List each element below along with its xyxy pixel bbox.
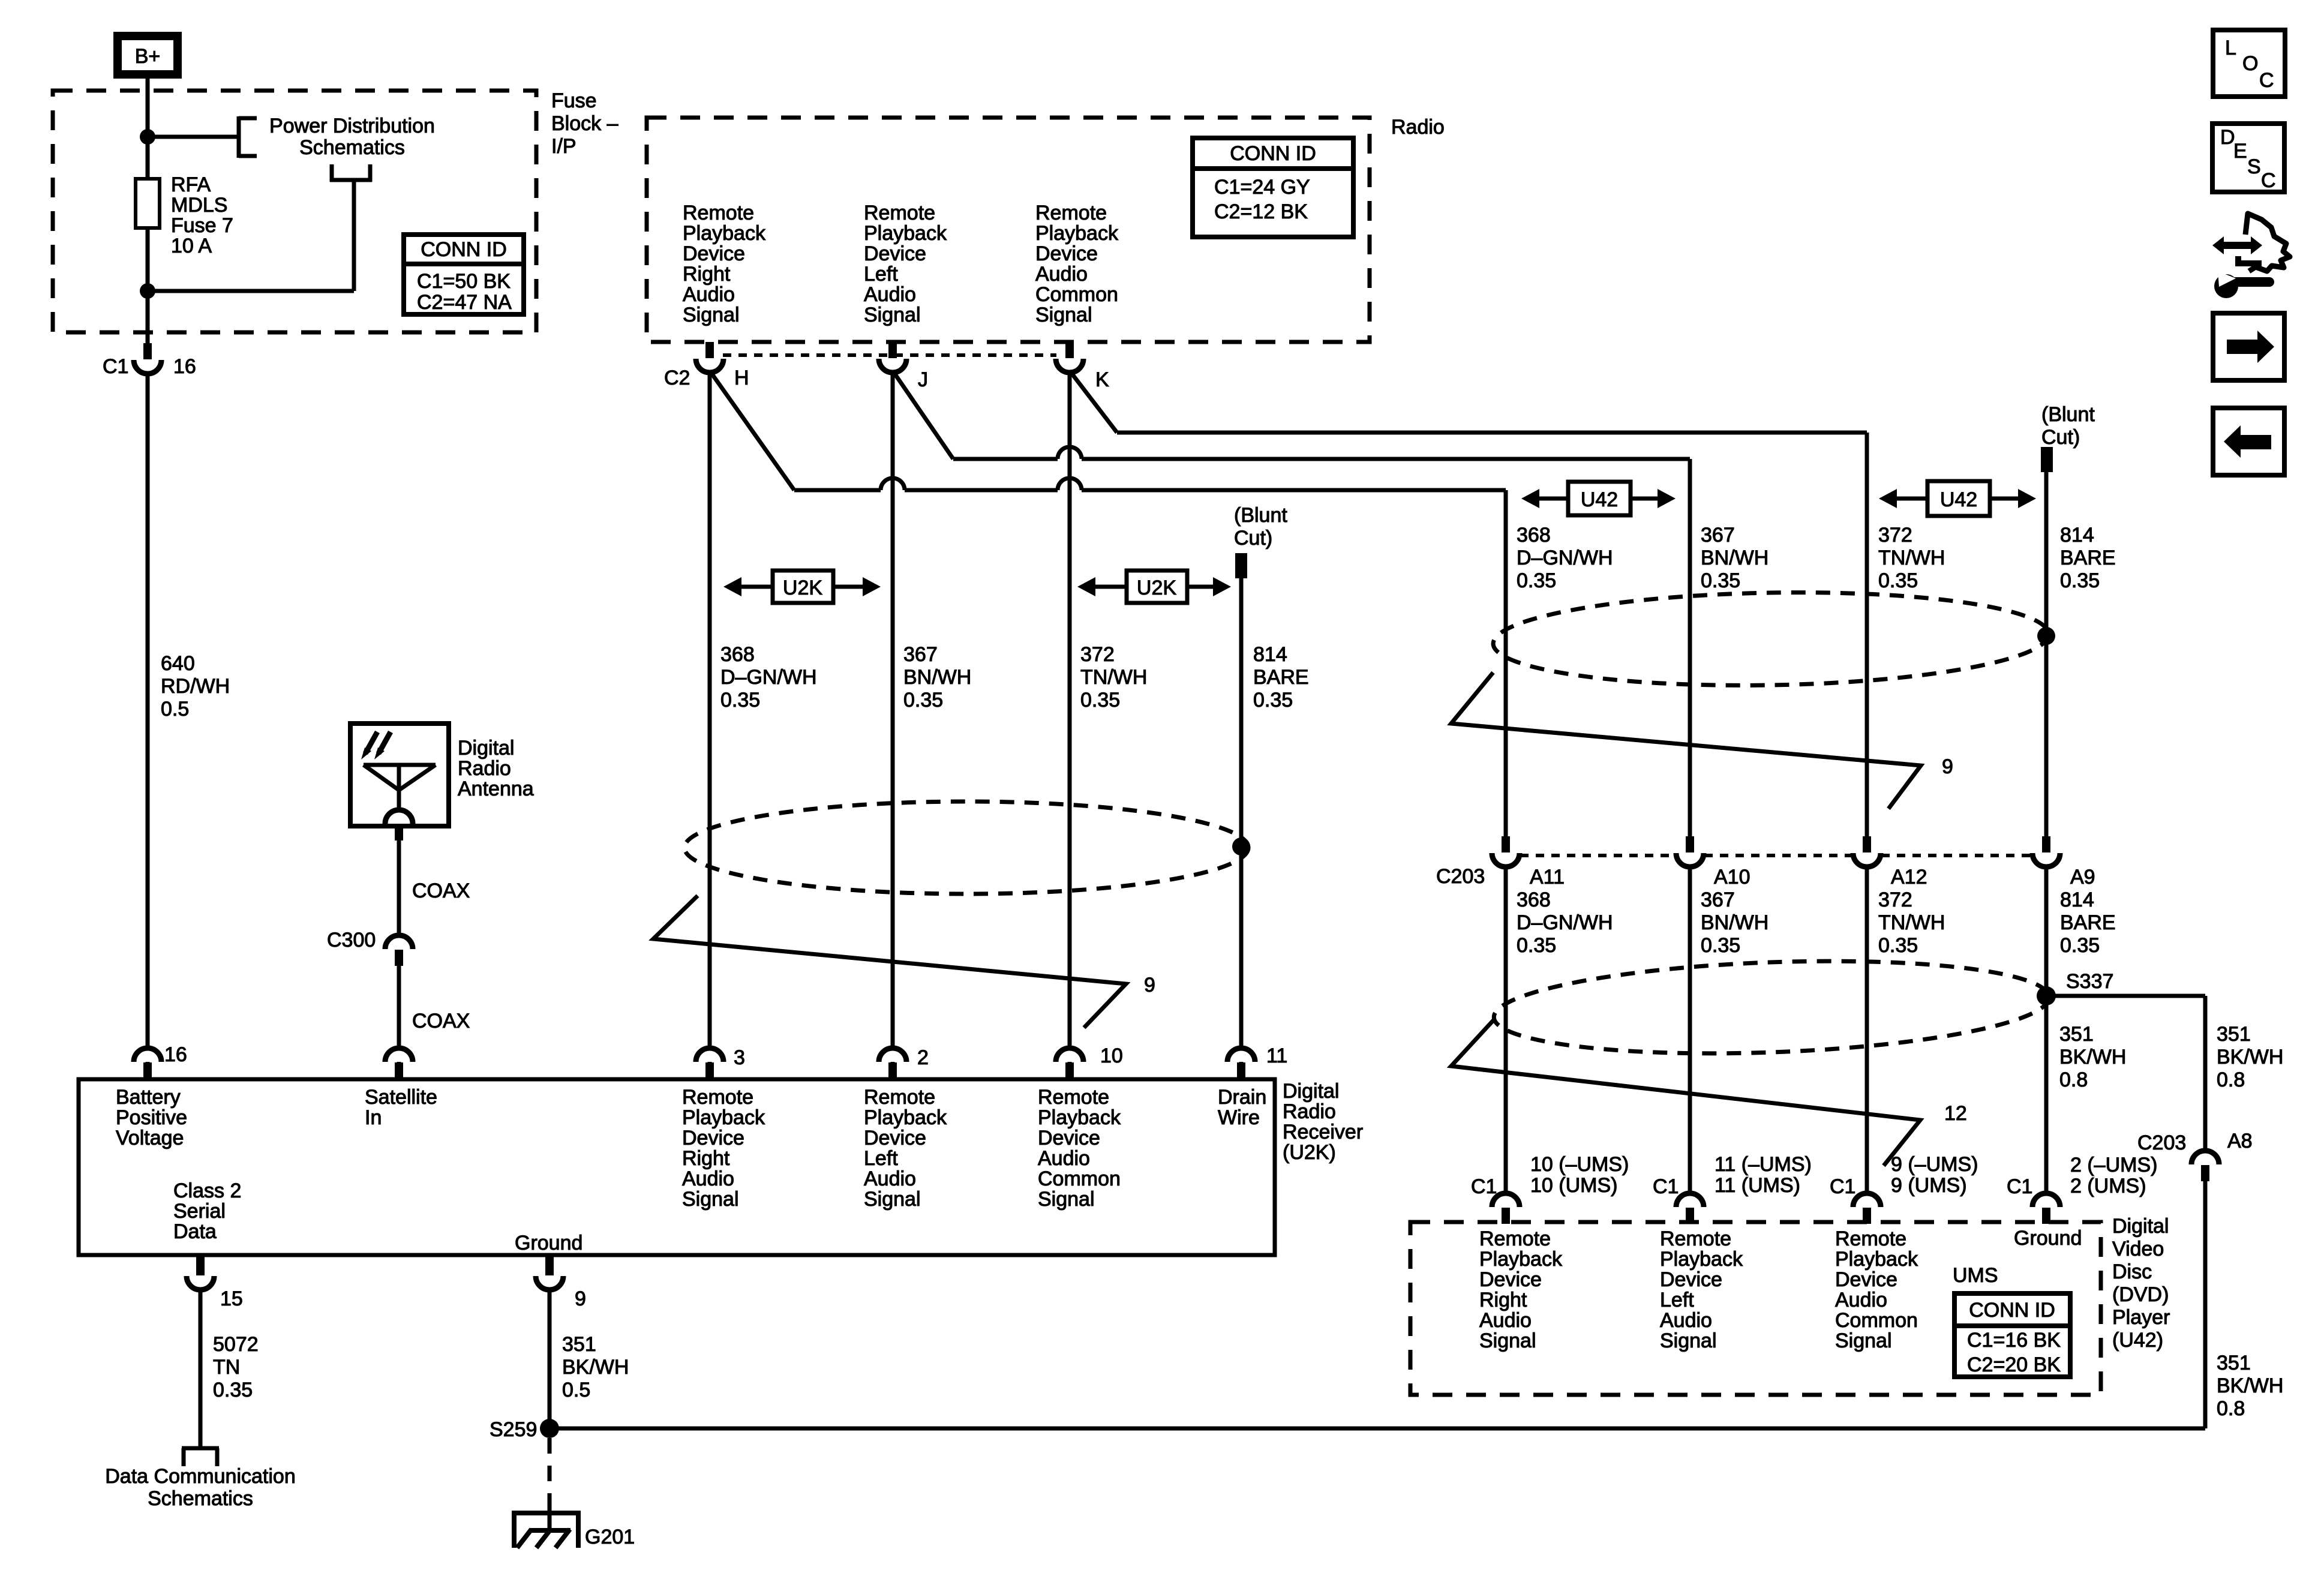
svg-text:10: 10 [1100,1044,1123,1067]
svg-text:U2K: U2K [1137,577,1176,599]
svg-text:C1: C1 [103,355,128,378]
svg-text:0.35: 0.35 [1080,689,1120,712]
svg-text:10 A: 10 A [171,235,212,257]
svg-text:MDLS: MDLS [171,194,227,217]
svg-text:(U42): (U42) [2112,1329,2163,1352]
svg-text:C203: C203 [1436,865,1485,888]
svg-text:Playback: Playback [864,1106,947,1129]
svg-text:Block –: Block – [551,112,618,135]
svg-text:Battery: Battery [116,1086,181,1109]
svg-text:10 (–UMS): 10 (–UMS) [1530,1153,1629,1176]
svg-text:Playback: Playback [683,222,766,245]
svg-text:16: 16 [173,355,196,378]
svg-text:Audio: Audio [683,283,735,306]
svg-text:BARE: BARE [1253,666,1309,689]
svg-text:372: 372 [1878,888,1912,911]
svg-text:Class 2: Class 2 [173,1179,241,1202]
svg-text:15: 15 [220,1287,243,1310]
svg-text:Disc: Disc [2112,1260,2152,1283]
svg-text:10 (UMS): 10 (UMS) [1530,1174,1617,1197]
svg-text:COAX: COAX [412,1010,470,1032]
svg-text:Left: Left [864,263,898,286]
svg-text:Audio: Audio [682,1167,734,1190]
svg-text:TN/WH: TN/WH [1878,547,1945,569]
svg-text:Device: Device [864,242,926,265]
svg-text:BN/WH: BN/WH [903,666,971,689]
svg-text:0.8: 0.8 [2217,1068,2245,1091]
svg-text:C1=16 BK: C1=16 BK [1967,1329,2061,1352]
svg-text:COAX: COAX [412,879,470,902]
svg-text:Audio: Audio [1835,1289,1887,1311]
svg-text:Satellite: Satellite [365,1086,437,1109]
svg-text:BK/WH: BK/WH [2059,1046,2126,1068]
svg-text:Cut): Cut) [1234,527,1272,550]
svg-text:Digital: Digital [458,737,514,760]
svg-text:Cut): Cut) [2041,426,2080,449]
svg-text:Fuse: Fuse [551,89,597,112]
svg-text:Positive: Positive [116,1106,187,1129]
svg-text:Device: Device [682,1127,744,1149]
svg-text:D–GN/WH: D–GN/WH [1517,911,1613,934]
svg-text:Audio: Audio [1479,1309,1532,1332]
svg-text:E: E [2233,140,2247,163]
svg-text:O: O [2242,52,2258,75]
svg-text:12: 12 [1944,1102,1967,1125]
svg-text:C300: C300 [327,929,376,951]
svg-text:CONN ID: CONN ID [1230,142,1316,165]
svg-text:Voltage: Voltage [116,1127,184,1149]
svg-text:Device: Device [1479,1268,1542,1291]
svg-text:Device: Device [864,1127,926,1149]
svg-text:(U2K): (U2K) [1283,1141,1336,1164]
svg-text:0.35: 0.35 [1878,934,1918,957]
svg-text:Signal: Signal [1479,1329,1536,1352]
svg-text:Ground: Ground [2014,1227,2082,1250]
svg-text:Remote: Remote [1479,1227,1551,1250]
svg-text:Power Distribution: Power Distribution [269,115,435,137]
svg-text:CONN ID: CONN ID [1969,1299,2055,1322]
svg-text:0.35: 0.35 [213,1379,253,1401]
svg-text:Device: Device [1835,1268,1897,1291]
svg-text:H: H [734,367,749,389]
svg-text:TN: TN [213,1356,240,1379]
svg-text:9 (UMS): 9 (UMS) [1891,1174,1967,1197]
svg-text:D–GN/WH: D–GN/WH [1517,547,1613,569]
svg-text:Signal: Signal [1660,1329,1717,1352]
svg-text:Video: Video [2112,1238,2164,1260]
svg-text:9: 9 [575,1287,586,1310]
svg-text:0.35: 0.35 [1701,569,1740,592]
svg-text:0.5: 0.5 [161,698,189,721]
svg-text:S259: S259 [490,1418,537,1441]
svg-text:Signal: Signal [1038,1188,1095,1211]
svg-text:Radio: Radio [1391,116,1445,139]
svg-text:Device: Device [1035,242,1098,265]
svg-text:0.35: 0.35 [2060,934,2100,957]
svg-text:351: 351 [562,1333,596,1356]
svg-text:Serial: Serial [173,1200,226,1223]
svg-text:Playback: Playback [1479,1248,1563,1271]
svg-text:U42: U42 [1940,488,1977,511]
svg-text:Device: Device [1038,1127,1100,1149]
svg-text:814: 814 [1253,643,1287,666]
svg-text:0.35: 0.35 [1878,569,1918,592]
svg-text:5072: 5072 [213,1333,259,1356]
svg-text:Remote: Remote [1835,1227,1906,1250]
svg-text:I/P: I/P [551,135,577,158]
svg-text:C203: C203 [2137,1131,2186,1154]
svg-text:11 (–UMS): 11 (–UMS) [1715,1153,1812,1176]
svg-text:C: C [2259,69,2274,92]
svg-text:D–GN/WH: D–GN/WH [720,666,817,689]
svg-text:0.35: 0.35 [720,689,760,712]
svg-text:Data Communication: Data Communication [105,1465,295,1488]
svg-text:A10: A10 [1714,866,1750,888]
svg-text:U42: U42 [1581,488,1618,511]
svg-text:Fuse 7: Fuse 7 [171,214,233,237]
svg-text:11 (UMS): 11 (UMS) [1715,1174,1800,1197]
svg-text:TN/WH: TN/WH [1080,666,1147,689]
svg-text:Remote: Remote [683,202,754,224]
svg-text:BN/WH: BN/WH [1701,911,1768,934]
svg-text:A11: A11 [1530,866,1565,888]
svg-text:Common: Common [1835,1309,1918,1332]
svg-text:C1: C1 [1653,1175,1679,1198]
svg-text:C: C [2261,169,2276,192]
svg-text:Remote: Remote [1660,1227,1731,1250]
svg-text:Data: Data [173,1220,217,1243]
svg-text:3: 3 [734,1046,745,1069]
svg-text:C1: C1 [1471,1175,1497,1198]
svg-text:11: 11 [1266,1044,1287,1067]
svg-text:BARE: BARE [2060,911,2116,934]
svg-text:Playback: Playback [1038,1106,1121,1129]
svg-text:C2: C2 [664,367,690,389]
svg-text:Signal: Signal [864,304,921,326]
svg-text:351: 351 [2217,1023,2251,1046]
svg-text:368: 368 [1517,524,1551,547]
svg-text:Remote: Remote [864,202,935,224]
svg-text:A9: A9 [2070,866,2095,888]
svg-text:RFA: RFA [171,173,211,196]
svg-text:0.5: 0.5 [562,1379,590,1401]
svg-text:G201: G201 [585,1526,635,1548]
svg-text:K: K [1095,368,1109,391]
svg-text:0.35: 0.35 [1253,689,1293,712]
svg-text:351: 351 [2217,1352,2251,1374]
svg-text:Schematics: Schematics [148,1487,253,1510]
svg-text:0.35: 0.35 [1701,934,1740,957]
svg-text:Right: Right [683,263,731,286]
svg-text:C1=24 GY: C1=24 GY [1214,176,1310,199]
svg-text:368: 368 [720,643,755,666]
svg-text:351: 351 [2059,1023,2094,1046]
svg-text:BARE: BARE [2060,547,2116,569]
svg-text:J: J [918,368,928,391]
svg-text:0.8: 0.8 [2059,1068,2088,1091]
svg-text:0.35: 0.35 [2060,569,2100,592]
svg-text:Audio: Audio [1038,1147,1090,1170]
svg-text:D: D [2220,126,2235,149]
svg-text:C1=50 BK: C1=50 BK [417,270,511,293]
svg-text:(Blunt: (Blunt [1234,504,1287,527]
svg-text:Radio: Radio [1283,1100,1336,1123]
svg-text:Playback: Playback [864,222,947,245]
svg-text:Wire: Wire [1218,1106,1260,1129]
svg-text:367: 367 [1701,524,1735,547]
svg-text:372: 372 [1878,524,1912,547]
svg-text:Digital: Digital [2112,1215,2169,1238]
svg-text:Common: Common [1035,283,1118,306]
svg-text:Playback: Playback [682,1106,765,1129]
svg-text:Audio: Audio [864,283,916,306]
svg-text:BK/WH: BK/WH [562,1356,629,1379]
svg-text:Left: Left [1660,1289,1694,1311]
svg-text:C1: C1 [1830,1175,1855,1198]
svg-text:0.8: 0.8 [2217,1397,2245,1420]
svg-text:L: L [2225,37,2236,59]
svg-text:16: 16 [164,1043,187,1066]
svg-text:Antenna: Antenna [458,778,534,800]
svg-text:A8: A8 [2227,1130,2253,1152]
svg-text:S: S [2247,155,2261,178]
svg-text:Audio: Audio [1035,263,1088,286]
svg-text:Digital: Digital [1283,1080,1339,1103]
svg-text:Right: Right [1479,1289,1527,1311]
svg-text:Playback: Playback [1660,1248,1743,1271]
svg-text:U2K: U2K [783,577,822,599]
svg-text:(DVD): (DVD) [2112,1283,2169,1306]
svg-text:Signal: Signal [683,304,740,326]
svg-text:Left: Left [864,1147,898,1170]
svg-text:Player: Player [2112,1306,2170,1329]
svg-text:Schematics: Schematics [299,136,405,159]
svg-text:TN/WH: TN/WH [1878,911,1945,934]
svg-text:(Blunt: (Blunt [2041,403,2095,426]
svg-text:Remote: Remote [682,1086,753,1109]
svg-text:367: 367 [903,643,938,666]
svg-text:S337: S337 [2066,970,2113,993]
svg-text:Device: Device [683,242,745,265]
svg-text:Signal: Signal [682,1188,739,1211]
svg-text:In: In [365,1106,382,1129]
svg-text:367: 367 [1701,888,1735,911]
svg-text:368: 368 [1517,888,1551,911]
svg-text:2: 2 [917,1046,929,1069]
svg-text:640: 640 [161,652,195,675]
svg-text:Audio: Audio [864,1167,916,1190]
svg-text:0.35: 0.35 [903,689,943,712]
svg-text:9: 9 [1144,974,1155,996]
svg-text:814: 814 [2060,888,2094,911]
svg-text:C1: C1 [2007,1175,2032,1198]
svg-text:372: 372 [1080,643,1115,666]
svg-text:C2=47 NA: C2=47 NA [417,291,512,314]
svg-text:Right: Right [682,1147,730,1170]
svg-text:9 (–UMS): 9 (–UMS) [1891,1153,1978,1176]
svg-text:Audio: Audio [1660,1309,1712,1332]
svg-text:0.35: 0.35 [1517,934,1556,957]
svg-text:BN/WH: BN/WH [1701,547,1768,569]
svg-text:9: 9 [1942,755,1953,778]
svg-text:Remote: Remote [864,1086,935,1109]
svg-text:B+: B+ [135,45,161,68]
svg-text:Remote: Remote [1035,202,1107,224]
svg-text:Playback: Playback [1035,222,1119,245]
svg-text:Signal: Signal [1835,1329,1892,1352]
svg-text:Remote: Remote [1038,1086,1109,1109]
svg-text:A12: A12 [1891,866,1927,888]
svg-text:Radio: Radio [458,757,511,780]
svg-text:C2=20 BK: C2=20 BK [1967,1353,2061,1376]
svg-text:Ground: Ground [515,1232,582,1254]
svg-text:2 (–UMS): 2 (–UMS) [2070,1154,2157,1176]
svg-text:C2=12 BK: C2=12 BK [1214,200,1308,223]
svg-text:814: 814 [2060,524,2094,547]
svg-text:Common: Common [1038,1167,1121,1190]
svg-text:RD/WH: RD/WH [161,675,230,698]
svg-text:BK/WH: BK/WH [2217,1374,2283,1397]
svg-text:Signal: Signal [1035,304,1092,326]
svg-text:BK/WH: BK/WH [2217,1046,2283,1068]
svg-text:Drain: Drain [1218,1086,1266,1109]
svg-text:Device: Device [1660,1268,1722,1291]
svg-text:Receiver: Receiver [1283,1121,1363,1143]
svg-text:0.35: 0.35 [1517,569,1556,592]
svg-text:2 (UMS): 2 (UMS) [2070,1175,2146,1197]
svg-text:UMS: UMS [1953,1264,1998,1287]
svg-text:CONN ID: CONN ID [421,238,507,261]
svg-text:Playback: Playback [1835,1248,1918,1271]
svg-text:Signal: Signal [864,1188,921,1211]
